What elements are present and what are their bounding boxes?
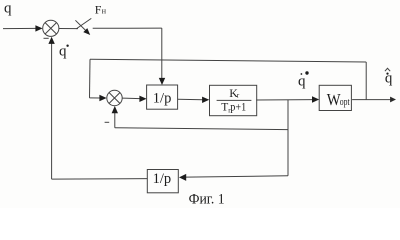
svg-text:1/p: 1/p (153, 171, 172, 187)
wire U1 to U2 (177, 98, 203, 100)
svg-text:q: q (385, 70, 393, 86)
svg-text:н: н (102, 7, 107, 16)
switch Fn arrow stroke (75, 20, 85, 30)
wire outer feedback to U4 (186, 176, 288, 177)
wire inner-loop left drop (89, 59, 92, 98)
wire U4 output to left rise (52, 178, 148, 181)
wire inner-loop right drop (365, 62, 367, 100)
summing junction S1 (43, 20, 59, 36)
wire inner feedback to S2 (115, 128, 288, 130)
open arrowhead output (390, 97, 396, 103)
switch Fn blade (76, 18, 91, 29)
arrow into summing junction S1 (35, 25, 42, 31)
wire S2 to integrator U1 (122, 97, 140, 100)
block U2 Kr/(Tr p+1) (210, 85, 257, 115)
wire drop into integrator U1 top (161, 28, 163, 80)
wire U3 output (352, 99, 390, 101)
block U4 integrator 1/p (147, 170, 178, 193)
svg-text:p+1: p+1 (230, 101, 246, 113)
svg-text:opt: opt (340, 97, 350, 108)
svg-text:q: q (298, 74, 306, 90)
wire q input (3, 27, 38, 29)
wire into S2 (90, 97, 101, 99)
svg-text:q: q (4, 0, 12, 16)
wire node A drop (287, 100, 289, 176)
svg-text:q: q (59, 44, 67, 60)
feedback wire inner-loop top (90, 59, 366, 62)
block U3 Wopt (319, 85, 351, 110)
minus sign at S1 (44, 37, 49, 39)
minus sign at S2 (105, 121, 110, 123)
block U1 integrator 1/p (147, 85, 178, 109)
wire U2 to U3 with junction node A (256, 99, 313, 101)
wire switch to drop point (93, 27, 162, 29)
summing junction S2 (107, 90, 122, 105)
svg-text:1/p: 1/p (153, 90, 172, 106)
svg-text:r: r (237, 91, 240, 99)
svg-text:Фиг. 1: Фиг. 1 (189, 191, 225, 207)
svg-text:T: T (221, 101, 228, 113)
svg-text:F: F (95, 3, 102, 17)
wire S1 to switch (59, 28, 78, 30)
